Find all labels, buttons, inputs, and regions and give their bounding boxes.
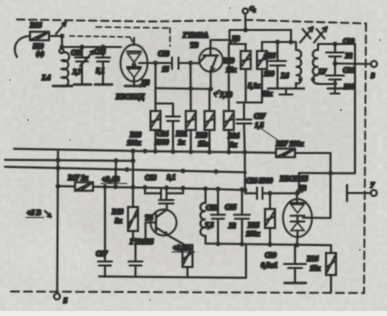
resistor R27 100k [245, 151, 276, 154]
capacitor C17 [104, 187, 106, 261]
transistor T3 GT313A [199, 48, 223, 72]
feedback loop C18 9,1 [145, 187, 161, 193]
rail 1 [14, 149, 245, 153]
wire node down to L4 [61, 36, 63, 49]
diode box D8 [230, 30, 247, 44]
transistor T4 GT313B [151, 210, 177, 236]
wire vertical to terminal 5 [56, 152, 59, 294]
resistor R19 15k [241, 51, 251, 69]
wire emitter bridge [156, 87, 211, 90]
varicap diode D6 KVS111D [121, 45, 148, 82]
dashed link line upper [96, 27, 170, 28]
leader line to R27 label [261, 129, 277, 140]
capacitor C31 390 [326, 76, 344, 80]
wire C24 top link [156, 104, 174, 117]
wire to terminal 3 [335, 62, 371, 65]
resistor R26 15k [330, 245, 332, 253]
R26 box [326, 253, 336, 275]
resistor R21 1k [186, 111, 196, 130]
resistor R20 100k [151, 111, 161, 130]
terminal 7 connector [346, 185, 348, 201]
capacitor C20 [134, 240, 136, 261]
dash-dot tuning line to varicap D6 [70, 36, 130, 37]
T junction and capacitor C27 1,5 in line [237, 101, 262, 103]
ground bar L4 [53, 85, 72, 88]
wire R18 top to rail [132, 151, 134, 187]
wire terminal C1 down [244, 14, 246, 30]
capacitor C26 100 [276, 42, 278, 61]
wire collector up [211, 39, 230, 41]
wire y173 across [299, 172, 355, 174]
C25 plates [234, 215, 250, 219]
C26 plates [269, 61, 286, 66]
C17 plates [98, 262, 112, 266]
R27 box [276, 149, 295, 158]
wire right rail down [354, 44, 356, 173]
dashed enclosure border top [17, 20, 366, 24]
capacitor C16 5,1 [102, 47, 104, 57]
ground bar D6 [125, 85, 143, 88]
terminal 5 [54, 294, 60, 300]
dashed enclosure border right [364, 24, 366, 294]
tuning arrows over L6 L7 [300, 27, 313, 43]
wire L7 top to right rail [318, 44, 355, 50]
emitter resistor box [183, 245, 193, 267]
capacitor C25 22 [241, 190, 243, 215]
capacitor C28 3300 [245, 190, 257, 193]
C22 plates [211, 215, 225, 219]
R16 box [30, 32, 49, 41]
capacitor C23 15 [172, 58, 179, 70]
link rails [245, 245, 247, 278]
R17 box [75, 182, 93, 191]
wire tank top [62, 46, 121, 48]
resistor 5,1k [257, 51, 267, 69]
terminal C1 [243, 8, 248, 13]
wire D6 centre tap [139, 62, 156, 64]
inductor L5 [204, 189, 206, 203]
resistor R23 15k [205, 111, 215, 130]
wire vertical x116 [114, 161, 117, 187]
wire D8 tap to R27 line [303, 153, 331, 218]
C16 plates [96, 58, 110, 62]
ground bar under C26/L6 [268, 87, 304, 89]
inductor L7 [313, 50, 318, 84]
ground bar C31 [328, 87, 343, 89]
capacitor C30 22 [334, 44, 336, 52]
varicap diode D8 KVS111B [283, 199, 312, 237]
terminal 3 [371, 61, 377, 67]
C20 plates [129, 262, 143, 266]
wire emitter down to R23 [208, 89, 210, 111]
inductor L6 [296, 50, 301, 84]
wire tap down to R20 [154, 63, 156, 111]
capacitor C29 0,5x1 [294, 245, 296, 264]
rail 3 [5, 167, 246, 173]
rail 2 [5, 160, 133, 161]
AF ground rail [99, 276, 246, 277]
wire L7 bottom [318, 83, 335, 86]
base node wire down [189, 63, 191, 111]
capacitor C19 to collector [165, 199, 167, 200]
tuning arrow at R16 node [56, 22, 66, 34]
wire R16 to node [49, 35, 62, 37]
wire bus y42 [262, 42, 296, 50]
inductor L4 [62, 52, 69, 86]
R18 box [128, 207, 138, 231]
trimmer arrow through C15 [80, 51, 94, 67]
resistor R25 160k [269, 193, 271, 209]
capacitor C22 7,5 [217, 189, 219, 214]
resistor R24 3k [224, 111, 234, 130]
capacitor C24 3300 [166, 117, 180, 122]
main AF wire [58, 186, 245, 190]
wire top bus y30 [230, 30, 291, 42]
wire R16 left hook lead [15, 36, 30, 57]
C15 plates [75, 58, 89, 62]
lower ground rail [206, 244, 332, 246]
R25 box [265, 209, 275, 228]
wire base link [133, 223, 156, 241]
capacitor C15 2,7 trimmer [81, 47, 83, 57]
dashed enclosure border bottom [11, 292, 364, 294]
voltage label 7,23 [214, 91, 220, 94]
